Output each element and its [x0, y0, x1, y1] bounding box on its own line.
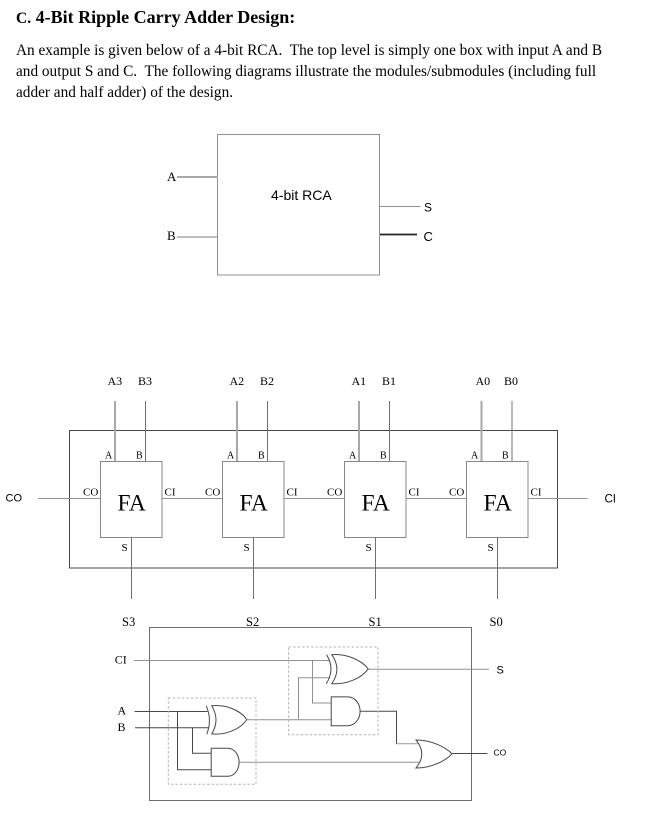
svg-text:B2: B2 [260, 374, 274, 388]
svg-text:S3: S3 [122, 615, 135, 629]
wire A0 [481, 401, 483, 462]
svg-text:FA: FA [484, 491, 512, 517]
wire B branch down to AND1 [193, 728, 213, 754]
wire B to XOR1 [135, 727, 209, 729]
svg-text:B: B [380, 451, 387, 462]
wire AND1 output to OR [239, 761, 419, 763]
svg-text:CO: CO [83, 487, 98, 499]
svg-text:CI: CI [115, 653, 127, 667]
wire CO output of OR [452, 753, 488, 755]
svg-text:S: S [244, 542, 250, 554]
wire A to U1 [177, 176, 218, 178]
svg-text:C: C [424, 229, 433, 244]
svg-text:S: S [122, 542, 128, 554]
svg-text:CI: CI [409, 487, 420, 499]
wire B3 [145, 401, 147, 462]
wire B to U1 [177, 236, 218, 238]
svg-text:CO: CO [494, 748, 507, 758]
wire S of FA2 [253, 538, 255, 600]
enclosure rect of full adder internals [150, 628, 472, 801]
wire CI branch down to AND2 [313, 661, 333, 704]
svg-text:A: A [349, 451, 357, 462]
wire S of FA3 [131, 538, 133, 600]
wire FA1 CI to FA0 CO [406, 498, 466, 500]
svg-text:B: B [258, 451, 265, 462]
wire FA2 CI to FA1 CO [284, 498, 344, 500]
wire B0 [511, 401, 513, 462]
full adder FA2 box [223, 462, 285, 538]
svg-text:S: S [488, 542, 494, 554]
svg-text:S2: S2 [246, 615, 259, 629]
svg-text:CO: CO [327, 487, 342, 499]
svg-text:A: A [471, 451, 479, 462]
svg-text:FA: FA [362, 491, 390, 517]
svg-text:CO: CO [6, 493, 23, 505]
svg-text:CI: CI [605, 494, 617, 506]
svg-text:A1: A1 [352, 374, 367, 388]
full adder FA3 box [101, 462, 163, 538]
svg-text:A: A [118, 704, 127, 718]
svg-text:S: S [497, 665, 504, 677]
svg-text:FA: FA [240, 491, 268, 517]
wire S of FA0 [497, 538, 499, 600]
wire B1 [389, 401, 391, 462]
wire stub into OR top input [397, 743, 420, 745]
svg-text:CI: CI [287, 487, 298, 499]
full adder FA0 box [467, 462, 529, 538]
svg-text:4-bit RCA: 4-bit RCA [271, 187, 332, 203]
wire S from U1 [380, 206, 421, 208]
wire riser XOR1 out up to XOR2 input [299, 678, 331, 720]
svg-text:B: B [136, 451, 143, 462]
svg-text:FA: FA [118, 491, 146, 517]
wire C from U1 [380, 234, 417, 236]
half adder HA1 dashed box [168, 698, 256, 784]
wire A to XOR1 [135, 711, 208, 713]
wire S output of XOR2 [368, 668, 489, 670]
svg-text:CI: CI [531, 487, 542, 499]
full adder FA1 box [345, 462, 407, 538]
xor gate XOR2 (sum) [332, 654, 368, 683]
svg-text:A2: A2 [230, 374, 245, 388]
wire A1 [358, 401, 360, 462]
half adder HA2 dashed box [289, 647, 378, 735]
svg-text:CI: CI [165, 487, 176, 499]
svg-text:B1: B1 [382, 374, 396, 388]
xor gate XOR1 (A xor B) [212, 706, 247, 735]
wire FA3 CI to FA2 CO [162, 498, 222, 500]
and gate AND1 (A and B) [211, 748, 239, 776]
wire B2 [267, 401, 269, 462]
wire XOR1 output to XOR2/AND2 [248, 719, 332, 721]
top-level block U1: 4-bit RCA box [218, 135, 380, 276]
wire CI to XOR2 [134, 660, 330, 662]
svg-text:A3: A3 [108, 374, 123, 388]
and gate AND2 (carry) [331, 697, 360, 726]
wire AND2 output to OR [360, 711, 397, 744]
enclosure rect of 4-bit RCA internals [70, 431, 558, 569]
svg-text:B: B [167, 228, 176, 243]
svg-text:A0: A0 [476, 374, 491, 388]
svg-text:B3: B3 [138, 374, 152, 388]
svg-text:A: A [167, 169, 177, 184]
svg-text:S: S [424, 201, 432, 215]
wire A3 [114, 401, 116, 462]
wire A2 [236, 401, 238, 462]
wire S of FA1 [375, 538, 377, 600]
svg-text:CO: CO [449, 487, 464, 499]
svg-text:B0: B0 [504, 374, 518, 388]
svg-text:S: S [366, 542, 372, 554]
svg-text:S1: S1 [369, 615, 382, 629]
wire FA0 CI out of enclosure [528, 498, 588, 500]
svg-text:A: A [105, 451, 113, 462]
wire CO into enclosure [38, 498, 100, 500]
wire A branch down to AND1 [178, 712, 213, 770]
svg-text:A: A [227, 451, 235, 462]
svg-text:B: B [502, 451, 509, 462]
svg-text:S0: S0 [490, 615, 503, 629]
svg-text:B: B [118, 720, 126, 734]
or gate OR1 (carry out) [416, 740, 452, 768]
svg-text:CO: CO [205, 487, 220, 499]
